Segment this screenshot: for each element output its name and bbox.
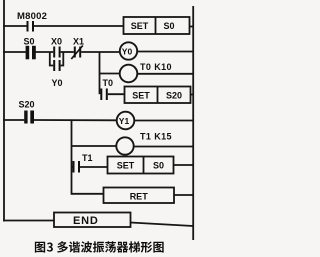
wire S0 to X0 [36,51,54,53]
svg-text:END: END [73,215,99,227]
svg-text:X1: X1 [73,37,84,47]
contact T1 [73,153,93,173]
svg-text:S0: S0 [24,37,35,47]
coil Y1 [117,112,135,130]
svg-text:S0: S0 [164,21,175,31]
wire rung2 left [3,51,26,53]
coil T1 (timer) [116,137,133,154]
wire Y1 coil to right rail [134,120,193,122]
svg-text:RET: RET [130,192,149,202]
wire T1 contact to SET S0 box [80,166,108,168]
wire to T1 contact [72,166,73,168]
wire T0 coil to right rail [137,73,193,75]
wire Y0 coil to right rail [137,51,193,53]
svg-text:T0 K10: T0 K10 [140,62,172,72]
svg-text:SET: SET [132,90,150,100]
contact X0 [51,37,62,58]
contact T0 [100,78,113,100]
wire rung1 to SET box [34,25,124,27]
SET S0 instruction box rung5 [108,157,174,174]
parallel branch right vertical wire [61,52,64,66]
wire to T1 coil [72,145,117,147]
svg-text:S20: S20 [19,100,35,110]
parallel branch left vertical wire [50,52,53,66]
wire S20 to Y1 coil [34,119,117,121]
END box [54,213,131,228]
right power rail [192,6,194,240]
wire to T0 coil [100,73,120,75]
svg-text:S20: S20 [166,90,182,100]
wire rung3 box to right rail [191,94,194,96]
coil Y0 [120,42,137,59]
wire X0 to X1 [61,51,74,53]
wire rung4 left [3,119,24,121]
svg-text:SET: SET [117,160,135,170]
wire rung1 box to right rail [190,26,194,28]
svg-text:Y0: Y0 [52,78,63,88]
wire branch to RET box [72,193,104,195]
SET S0 instruction box rung1 [124,17,190,34]
state branch vertical wire down to RET [71,120,73,195]
wire END box to right rail [131,223,194,227]
STL step contact S0 [24,37,36,60]
svg-text:Y0: Y0 [122,47,133,57]
svg-text:M8002: M8002 [17,11,47,22]
wire rung5 box to right rail [174,164,194,166]
contact M8002 [17,11,47,32]
wire END left [3,220,54,222]
branch wire down from rung2 to T0 coil and T0 contact [99,52,101,94]
STL step contact S20 [19,100,35,124]
left power rail [3,0,5,222]
wire T0 contact to SET S20 box [108,93,125,95]
wire RET box to right rail [174,194,193,196]
svg-text:SET: SET [131,21,149,31]
caption 图3 多谐波振荡器梯形图 [35,241,164,252]
wire rung1 left [3,25,27,27]
wire T1 coil to right rail [134,146,194,148]
svg-text:T1: T1 [82,153,93,163]
contact Y0 parallel [52,60,63,88]
RET box [104,188,175,204]
wire X1 to Y0 coil [81,51,120,53]
svg-text:Y1: Y1 [119,116,130,126]
svg-text:X0: X0 [51,37,62,47]
contact X1 normally-closed [71,37,84,60]
svg-text:S0: S0 [153,160,164,170]
svg-text:T1 K15: T1 K15 [140,132,172,142]
coil T0 (timer) [120,65,138,83]
svg-text:T0: T0 [103,78,114,88]
SET S20 instruction box [125,87,191,104]
